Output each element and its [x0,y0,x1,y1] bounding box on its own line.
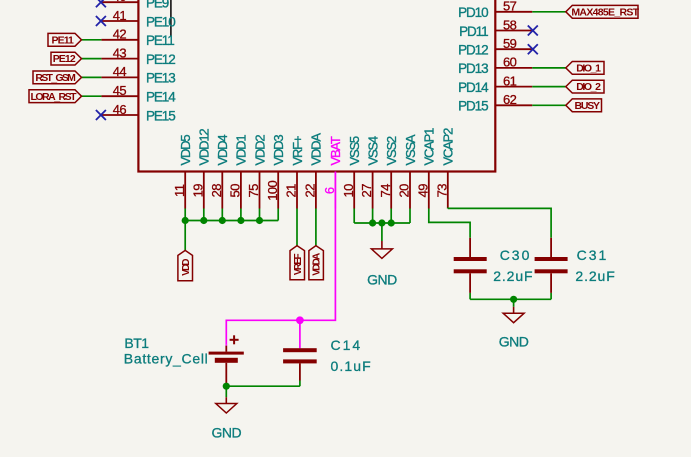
pin 40 (PE9) of U1 [101,0,168,11]
junction dot (VBAT net) at C14 top [296,316,304,324]
svg-text:60: 60 [503,55,517,70]
pin 100 (VDD3) of U1 [265,135,286,209]
svg-text:PE11: PE11 [146,33,174,48]
svg-text:59: 59 [503,36,517,51]
wire from pin 57 to global label MAX485E_RST [532,11,566,13]
wire from junction down to GND symbol [513,299,515,307]
black vertical line artifact inside IC [170,0,172,36]
svg-text:28: 28 [209,184,224,198]
svg-text:LORA_RST: LORA_RST [30,91,77,103]
svg-text:44: 44 [113,64,127,79]
wire VDD bus: verticals from VDD pins down to horizontal bus [185,209,278,221]
svg-text:C30: C30 [500,247,532,263]
svg-text:75: 75 [246,184,261,198]
wire from pin 22 (VDDA) to VDDA power label [315,209,317,246]
svg-text:41: 41 [113,8,127,23]
wire from pin 73 (VCAP2) to C31 [448,208,551,237]
svg-text:VSS4: VSS4 [365,136,380,165]
wire from pin 49 (VCAP1) to C30 [429,209,470,238]
svg-text:45: 45 [113,83,127,98]
svg-text:PD12: PD12 [458,43,488,58]
svg-text:50: 50 [228,184,243,198]
pin 46 (PE15) of U1 [101,102,175,124]
wire from global label PE11 to pin 42 [82,39,102,41]
wire from global label RST_GSM to pin 44 [82,76,102,78]
pin 10 (VSS5) of U1 [341,136,362,208]
global label BUSY [566,99,602,112]
junction dots on VDD bus [182,217,264,224]
svg-text:VDD2: VDD2 [252,135,267,166]
svg-text:VDD1: VDD1 [234,135,249,166]
no-connect X on pin 40 [96,0,106,7]
svg-text:62: 62 [503,92,517,107]
svg-text:BUSY: BUSY [574,100,600,112]
wire from VSS bus down to GND symbol [381,223,383,241]
no-connect X on pin 46 [96,110,106,120]
svg-text:VREF: VREF [293,254,304,276]
svg-text:10: 10 [341,184,356,198]
svg-text:VSS5: VSS5 [347,136,362,165]
pin 6 (VBAT) of U1 [322,136,343,208]
svg-text:PE10: PE10 [146,14,175,29]
battery BT1 (Battery_Cell) [209,335,244,386]
pin 62 (PD15) of U1 [458,92,532,114]
pin 45 (PE14) of U1 [101,83,176,105]
svg-text:PD11: PD11 [459,24,488,39]
pin 11 (VDD5) of U1 [172,135,193,209]
capacitor C14 [283,348,317,380]
svg-text:PE15: PE15 [146,108,175,123]
wire from pin 62 to global label BUSY [532,104,566,106]
svg-text:61: 61 [503,73,517,88]
svg-text:PE11: PE11 [51,34,74,46]
pin 22 (VDDA) of U1 [303,133,324,209]
pin 58 (PD11) of U1 [459,17,532,39]
no-connect X on pin 59 [528,44,538,54]
power label VREF [290,246,305,280]
wire VBAT (highlighted) from pin 6 down and left to battery [226,209,335,345]
svg-text:PE14: PE14 [146,90,176,105]
svg-text:49: 49 [415,184,430,198]
svg-text:GND: GND [211,425,241,441]
ground GND under C30/C31 [499,307,529,350]
global label LORA_RST [29,90,82,103]
svg-text:VBAT: VBAT [328,136,343,165]
wire from pin 60 to global label DIO_1 [532,67,566,69]
svg-text:6: 6 [322,187,337,194]
svg-text:PE12: PE12 [53,53,76,65]
capacitor C31 [535,238,568,293]
pin 41 (PE10) of U1 [101,8,175,30]
svg-text:PD10: PD10 [458,5,488,20]
svg-text:PD14: PD14 [458,80,489,95]
ground GND under battery BT1 [211,397,241,441]
svg-text:27: 27 [359,184,374,198]
svg-text:VDDA: VDDA [309,133,324,166]
wire from pin 61 to global label DIO_2 [532,86,566,88]
wire from battery bottom to C14 bottom [226,381,300,387]
svg-text:GND: GND [367,272,397,288]
IC U1 body (STM32 MCU, top edge off-screen) [138,0,495,172]
svg-text:PE9: PE9 [146,0,169,11]
svg-text:19: 19 [190,184,205,198]
wire from pin 21 (VRF+) to VREF power label [296,209,298,246]
pin 74 (VSS2) of U1 [378,136,399,208]
svg-text:57: 57 [503,0,517,14]
svg-text:VDD3: VDD3 [271,135,286,166]
svg-text:VSSA: VSSA [403,134,418,165]
svg-text:2.2uF: 2.2uF [575,268,615,284]
svg-text:VCAP1: VCAP1 [422,128,437,166]
capacitor C30 [454,238,487,293]
svg-text:VCAP2: VCAP2 [441,128,456,166]
pin 20 (VSSA) of U1 [397,134,418,208]
pin 49 (VCAP1) of U1 [415,128,436,209]
svg-text:PD13: PD13 [458,61,488,76]
wire joining C30 and C31 bottoms [470,293,551,299]
pin 44 (PE13) of U1 [101,64,175,86]
svg-text:DIO_1: DIO_1 [576,63,601,75]
svg-text:VRF+: VRF+ [290,136,305,165]
svg-text:100: 100 [265,180,280,200]
svg-text:42: 42 [113,27,127,42]
svg-text:20: 20 [397,184,412,198]
pin 73 (VCAP2) of U1 [434,128,455,209]
svg-text:C14: C14 [331,337,363,353]
global label RST_GSM [33,71,82,84]
svg-text:VDD: VDD [181,259,192,276]
wire VSS bus: verticals from VSS pins down to horizontal bus [354,209,410,224]
svg-text:RST_GSM: RST_GSM [35,72,76,84]
global label PE11 [48,33,82,46]
pin 19 (VDD12) of U1 [190,129,211,209]
pin 27 (VSS4) of U1 [359,136,380,208]
pin 50 (VDD1) of U1 [228,135,249,209]
wire from global label PE12 to pin 43 [82,58,102,60]
wire from junction down to GND symbol [225,386,227,397]
svg-text:74: 74 [378,184,393,198]
junction dot at GND stem below C30/C31 [510,296,517,303]
pin 28 (VDD4) of U1 [209,135,230,209]
svg-text:58: 58 [503,17,517,32]
svg-text:VDD4: VDD4 [215,135,230,166]
svg-text:MAX485E_RST: MAX485E_RST [571,6,639,18]
pin 61 (PD14) of U1 [458,73,532,95]
svg-text:2.2uF: 2.2uF [493,268,533,284]
svg-text:21: 21 [284,184,299,198]
svg-text:0.1uF: 0.1uF [331,358,372,374]
junction dots on VSS bus [369,219,395,226]
svg-text:C31: C31 [577,247,609,263]
svg-text:11: 11 [172,184,187,197]
svg-text:73: 73 [434,184,449,198]
svg-text:43: 43 [113,45,127,60]
pin 57 (PD10) of U1 [458,0,532,20]
pin 21 (VRF+) of U1 [284,136,305,208]
no-connect X on pin 41 [96,16,106,26]
global label PE12 [51,52,82,65]
svg-text:VSS2: VSS2 [384,136,399,165]
pin 60 (PD13) of U1 [458,55,532,77]
svg-text:VDD12: VDD12 [197,129,212,166]
svg-text:BT1: BT1 [124,335,149,351]
wire from VDD bus to VDD power label [184,221,186,251]
global label DIO_2 [566,80,604,93]
wire from global label LORA_RST to pin 45 [82,95,102,97]
svg-text:22: 22 [303,184,318,198]
svg-text:PE13: PE13 [146,71,175,86]
pin 75 (VDD2) of U1 [246,135,267,209]
power label VDDA [309,246,324,280]
power label VDD [178,250,193,280]
svg-text:VDD5: VDD5 [178,135,193,166]
global label MAX485E_RST [566,5,638,18]
svg-text:VDDA: VDDA [312,253,323,276]
ground GND under VSS pins [367,241,397,288]
svg-text:PD15: PD15 [458,99,488,114]
pin 59 (PD12) of U1 [458,36,532,58]
svg-text:DIO_2: DIO_2 [576,81,601,93]
wire VBAT branch down to C14 [299,320,301,348]
pin 42 (PE11) of U1 [101,27,174,49]
svg-text:PE12: PE12 [146,52,175,67]
svg-text:Battery_Cell: Battery_Cell [124,351,209,367]
no-connect X on pin 58 [528,26,538,36]
svg-text:40: 40 [113,0,127,4]
global label DIO_1 [566,62,604,75]
svg-text:46: 46 [113,102,127,117]
pin 43 (PE12) of U1 [101,45,175,67]
junction dot at battery bottom [223,383,230,390]
svg-text:GND: GND [499,333,529,349]
